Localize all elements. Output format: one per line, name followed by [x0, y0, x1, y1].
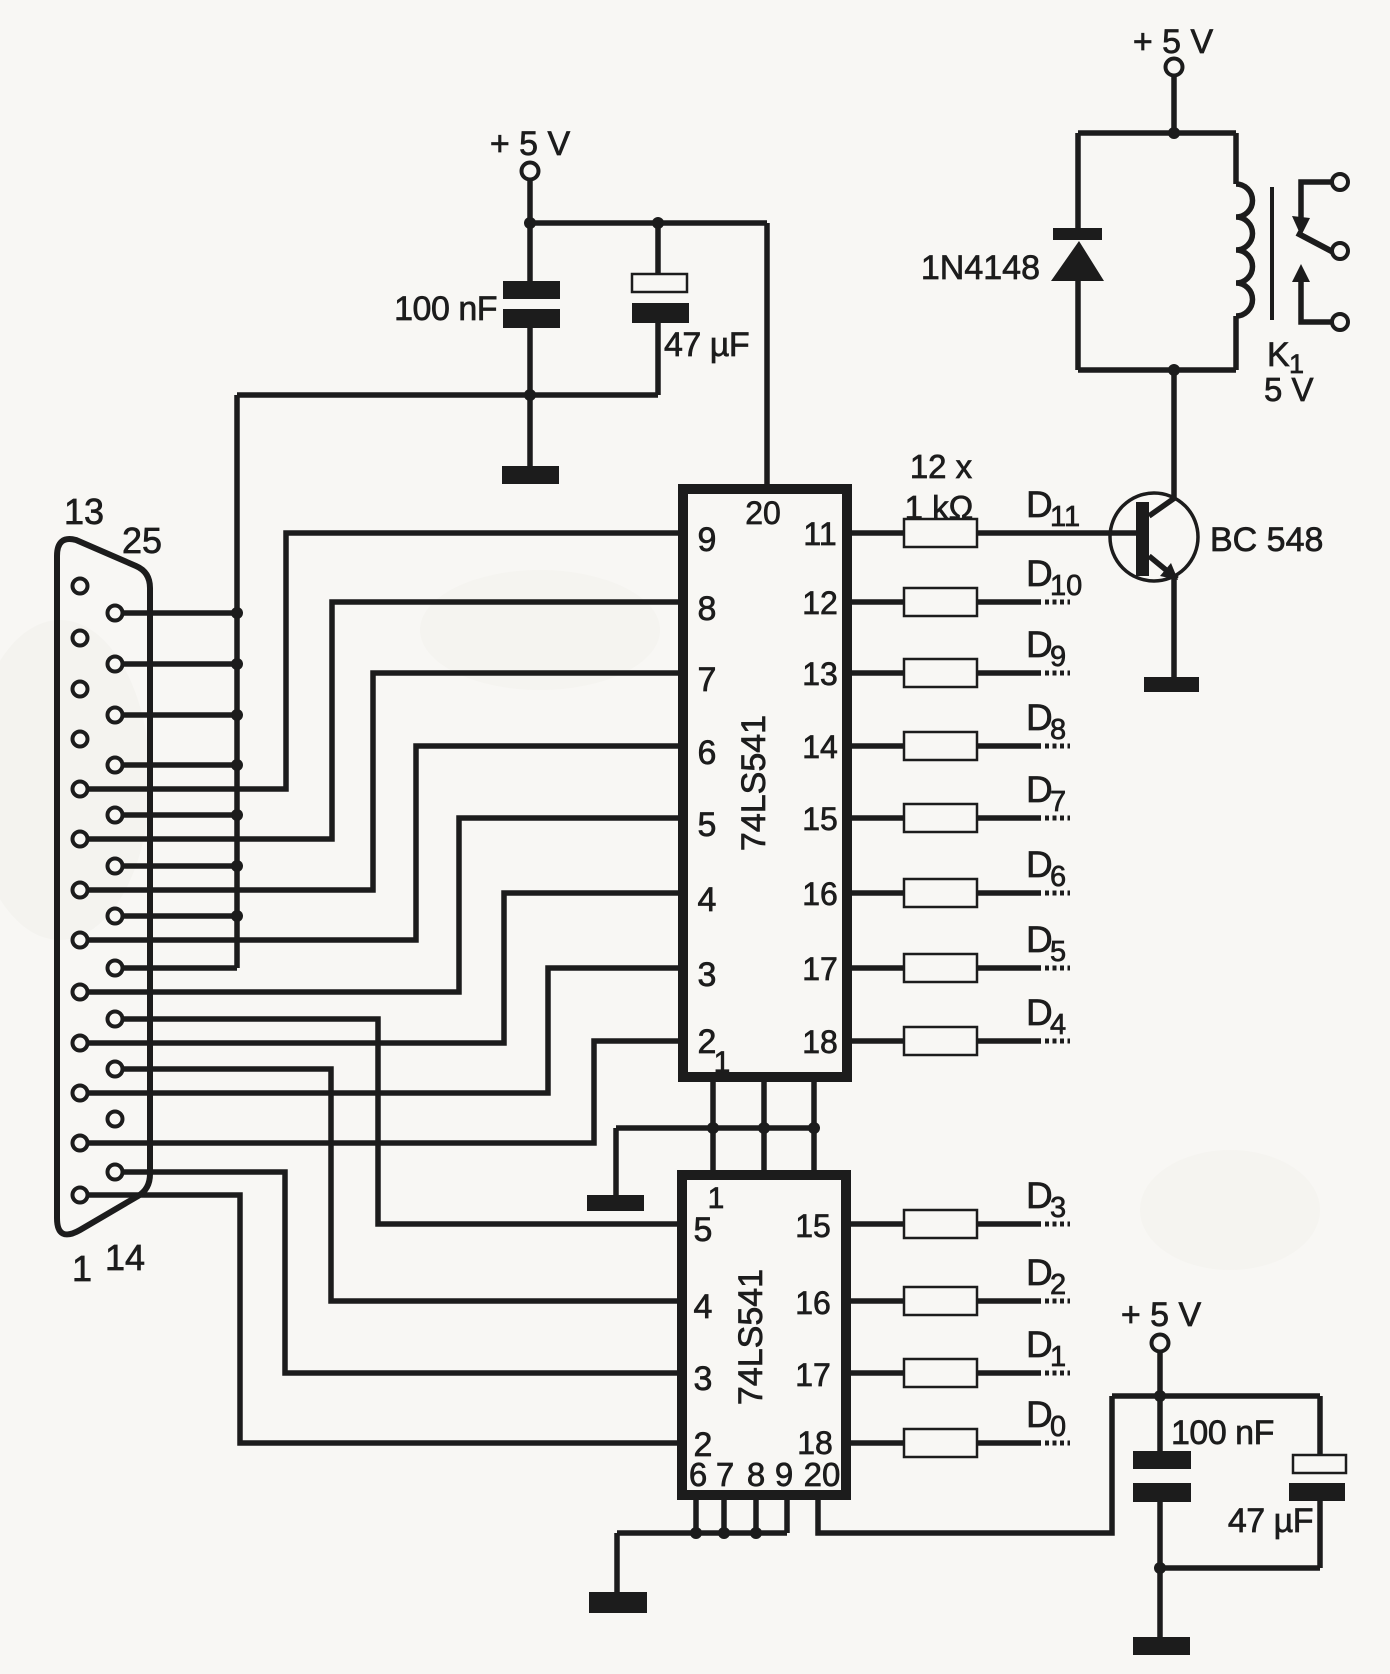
- svg-text:5: 5: [694, 1211, 713, 1249]
- svg-text:13: 13: [64, 491, 104, 532]
- svg-text:D: D: [1026, 484, 1053, 525]
- svg-text:20: 20: [804, 1456, 841, 1493]
- svg-text:4: 4: [1050, 1009, 1066, 1041]
- svg-text:K: K: [1267, 336, 1290, 374]
- svg-text:15: 15: [802, 801, 838, 837]
- svg-text:6: 6: [698, 734, 717, 772]
- svg-text:8: 8: [698, 590, 717, 628]
- svg-text:0: 0: [1050, 1411, 1066, 1443]
- svg-text:47 µF: 47 µF: [1228, 1502, 1313, 1540]
- svg-text:D: D: [1026, 919, 1053, 960]
- svg-text:17: 17: [802, 951, 838, 987]
- svg-text:5: 5: [1050, 936, 1066, 968]
- svg-text:+ 5 V: + 5 V: [490, 125, 571, 163]
- svg-text:74LS541: 74LS541: [732, 1269, 770, 1405]
- svg-text:14: 14: [105, 1237, 145, 1278]
- svg-text:16: 16: [795, 1285, 831, 1321]
- svg-text:6: 6: [689, 1456, 707, 1493]
- svg-text:15: 15: [795, 1208, 831, 1244]
- svg-text:D: D: [1026, 697, 1053, 738]
- svg-text:100 nF: 100 nF: [394, 290, 497, 328]
- svg-text:25: 25: [122, 520, 162, 561]
- svg-text:1N4148: 1N4148: [921, 249, 1040, 287]
- svg-text:1: 1: [714, 1046, 731, 1079]
- svg-text:D: D: [1026, 1394, 1053, 1435]
- svg-text:6: 6: [1050, 861, 1066, 893]
- svg-text:9: 9: [698, 521, 717, 559]
- svg-text:4: 4: [698, 881, 717, 919]
- svg-text:14: 14: [802, 729, 838, 765]
- svg-text:1: 1: [1050, 1341, 1066, 1373]
- svg-text:7: 7: [1050, 786, 1066, 818]
- svg-text:+ 5 V: + 5 V: [1121, 1296, 1202, 1334]
- svg-text:1: 1: [72, 1248, 92, 1289]
- svg-text:5: 5: [698, 806, 717, 844]
- svg-text:20: 20: [745, 495, 781, 531]
- svg-text:12 x: 12 x: [910, 448, 973, 485]
- svg-text:47 µF: 47 µF: [664, 326, 749, 364]
- svg-text:4: 4: [694, 1288, 713, 1326]
- svg-text:10: 10: [1050, 570, 1082, 602]
- svg-text:D: D: [1026, 1324, 1053, 1365]
- svg-text:7: 7: [716, 1456, 734, 1493]
- svg-text:+ 5 V: + 5 V: [1133, 23, 1214, 61]
- svg-text:D: D: [1026, 992, 1053, 1033]
- svg-text:8: 8: [1050, 714, 1066, 746]
- svg-text:7: 7: [698, 661, 717, 699]
- svg-text:D: D: [1026, 1175, 1053, 1216]
- svg-text:D: D: [1026, 624, 1053, 665]
- svg-text:8: 8: [747, 1456, 765, 1493]
- svg-text:74LS541: 74LS541: [735, 715, 773, 851]
- svg-text:3: 3: [1050, 1192, 1066, 1224]
- svg-text:D: D: [1026, 769, 1053, 810]
- svg-text:2: 2: [1050, 1269, 1066, 1301]
- svg-text:BC 548: BC 548: [1210, 521, 1323, 559]
- svg-text:9: 9: [1050, 641, 1066, 673]
- svg-text:12: 12: [802, 585, 838, 621]
- svg-text:11: 11: [803, 516, 836, 552]
- svg-text:9: 9: [775, 1456, 793, 1493]
- svg-text:18: 18: [802, 1024, 838, 1060]
- svg-text:17: 17: [795, 1357, 831, 1393]
- svg-text:5 V: 5 V: [1264, 371, 1314, 408]
- svg-text:D: D: [1026, 553, 1053, 594]
- svg-text:1 kΩ: 1 kΩ: [905, 489, 974, 526]
- svg-text:11: 11: [1050, 501, 1080, 533]
- svg-text:3: 3: [698, 956, 717, 994]
- svg-text:100 nF: 100 nF: [1171, 1414, 1274, 1452]
- svg-text:D: D: [1026, 1252, 1053, 1293]
- svg-text:D: D: [1026, 844, 1053, 885]
- svg-text:3: 3: [694, 1360, 713, 1398]
- svg-text:16: 16: [802, 876, 838, 912]
- svg-text:13: 13: [802, 656, 838, 692]
